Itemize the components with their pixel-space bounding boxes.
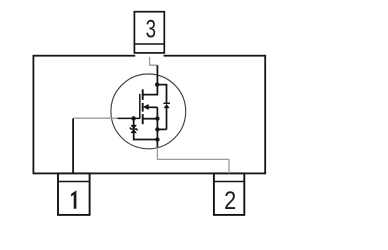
svg-text:3: 3 [146,15,156,43]
svg-text:2: 2 [224,186,236,214]
